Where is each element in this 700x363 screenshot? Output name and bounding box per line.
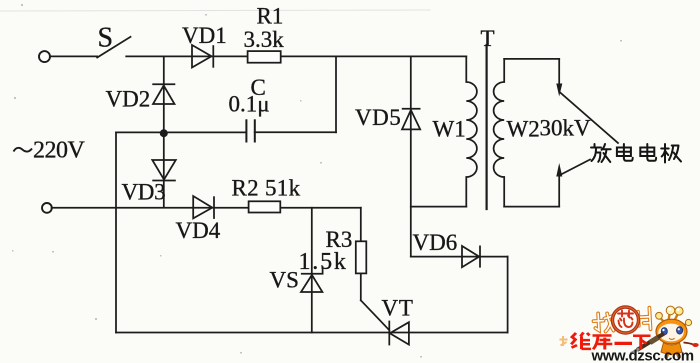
faint scan streak [0, 10, 430, 11]
wire R3 top lead [360, 208, 362, 242]
wire terminal2 to R2 [52, 207, 249, 209]
char dian 2 [640, 144, 656, 161]
watermark text pian (chip) outline char [638, 308, 651, 330]
wire W1 bottom link [411, 206, 467, 208]
watermark mascot legs [666, 352, 680, 358]
svg-text:0.1μ: 0.1μ [229, 92, 270, 117]
svg-text:R1: R1 [257, 4, 284, 29]
svg-text:VD5: VD5 [355, 105, 401, 130]
svg-text:T: T [481, 26, 495, 51]
discharge electrode bottom lead [558, 175, 560, 207]
wire VD6 row [411, 256, 508, 258]
diode VD1 [192, 45, 213, 68]
watermark mascot head [656, 319, 687, 344]
svg-text:VS: VS [270, 268, 299, 293]
watermark mascot stick (soldering iron) [637, 334, 664, 351]
diode VD5 [402, 109, 421, 130]
svg-text:VD4: VD4 [176, 218, 221, 243]
winding W1 [466, 56, 477, 206]
watermark [560, 306, 699, 363]
watermark mascot body [661, 343, 682, 355]
wire W2 bottom [504, 206, 559, 208]
svg-text:www.dzsc.com: www.dzsc.com [591, 348, 694, 363]
terminal 2 [42, 203, 52, 213]
diode VD6 [462, 246, 480, 268]
thyristor VT [389, 321, 409, 346]
wire left branch vertical [115, 132, 117, 332]
svg-text:30kV: 30kV [540, 116, 592, 141]
wire switch to R1 [126, 55, 247, 57]
wire R1 to W1 top [281, 55, 467, 57]
wire C row left [116, 131, 246, 133]
wire C right riser [335, 56, 337, 132]
diode VD2 [152, 84, 175, 104]
watermark mascot antenna balls [656, 306, 692, 326]
watermark text zhao (find) outline char [593, 313, 613, 332]
wire terminal1 to switch [50, 55, 97, 57]
capacitor C [246, 119, 254, 142]
char xia [633, 336, 651, 350]
svg-text:220V: 220V [33, 138, 86, 164]
wire bottom rail [116, 332, 508, 334]
resistor R3 [356, 241, 367, 273]
char dian [617, 144, 633, 161]
svg-text:VD1: VD1 [182, 23, 227, 48]
char ji [661, 144, 681, 163]
terminal 1 [39, 51, 50, 62]
watermark magnifier with xin char [613, 307, 639, 333]
resistor R2 [249, 201, 281, 212]
watermark mascot face [658, 324, 683, 342]
wire R2 to R3 corner [280, 207, 361, 209]
svg-text:W1: W1 [433, 117, 466, 142]
discharge electrode bottom arrow [556, 163, 562, 177]
wire VT gate diagonal [361, 300, 390, 330]
winding W2 [494, 59, 505, 207]
wire VD2 branch [163, 56, 165, 133]
wire VD6 drop to bottom rail [507, 257, 509, 333]
watermark mascot antenna stalks [660, 312, 689, 326]
svg-text:3.3k: 3.3k [244, 27, 285, 52]
svg-text:VD6: VD6 [413, 230, 458, 255]
diode VD3 [152, 160, 176, 181]
watermark text weikuyixia (red) [571, 333, 650, 350]
char ku [593, 335, 613, 349]
switch S arm [97, 37, 130, 58]
wire VD5 branch vertical [410, 56, 412, 256]
char yi [615, 341, 633, 345]
svg-text:1.5k: 1.5k [299, 249, 348, 275]
node A junction dot [160, 129, 168, 137]
discharge electrode top lead [558, 59, 560, 85]
svg-text:W2: W2 [507, 117, 540, 142]
svg-text:VD3: VD3 [122, 180, 166, 205]
diode VD4 [193, 196, 214, 219]
watermark faint stray char [560, 336, 568, 346]
svg-text:VD2: VD2 [106, 87, 151, 112]
leader line to label lower [561, 160, 590, 175]
discharge electrode top arrow [556, 84, 562, 97]
zener VS [301, 266, 323, 292]
wire R3 bottom lead [360, 273, 362, 300]
char fang [591, 144, 611, 162]
wire VD3 branch [163, 133, 165, 207]
watermark mascot tail whip [684, 343, 695, 345]
svg-text:VT: VT [382, 296, 414, 321]
leader line to label upper [560, 93, 618, 144]
label 放电电极 (discharge electrode) drawn as strokes [591, 144, 681, 163]
char wei [571, 333, 591, 350]
svg-text:S: S [98, 23, 114, 54]
transformer T core [486, 45, 488, 209]
wire VS branch [311, 208, 313, 333]
resistor R1 [248, 51, 281, 63]
watermark mascot eyes [661, 327, 683, 335]
svg-text:R2 51k: R2 51k [232, 176, 301, 201]
watermark mascot mouth [669, 338, 675, 339]
wire C row right [255, 131, 336, 133]
wire W2 top [504, 58, 559, 60]
